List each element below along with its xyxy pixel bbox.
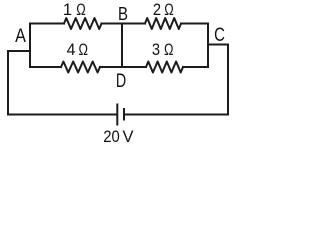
svg-text:D: D	[116, 70, 126, 92]
wire left outer vertical	[7, 51, 9, 115]
label 2 ohm	[153, 1, 174, 19]
battery value label 20 V	[103, 128, 133, 146]
svg-text:Ω: Ω	[164, 1, 174, 19]
label 1 ohm	[63, 1, 86, 19]
svg-text:20: 20	[103, 128, 120, 146]
battery 20V short plate	[123, 109, 125, 120]
svg-text:C: C	[214, 24, 225, 46]
wire node D to R3	[122, 66, 146, 68]
battery 20V long plate	[116, 105, 118, 125]
svg-text:A: A	[15, 25, 26, 47]
wire node B to node D	[121, 24, 123, 68]
wire right bridge bar	[207, 24, 209, 68]
wire R3 to right bar	[183, 66, 208, 68]
svg-text:B: B	[118, 3, 128, 24]
resistor R4 4ohm	[61, 62, 100, 73]
svg-text:3: 3	[152, 41, 160, 59]
resistor R2 2ohm	[145, 18, 181, 29]
svg-text:V: V	[122, 128, 133, 146]
label 3 ohm	[152, 41, 174, 59]
wire top-left (A bar to R1)	[30, 23, 64, 25]
svg-text:Ω: Ω	[76, 1, 86, 19]
svg-text:4: 4	[67, 41, 76, 59]
resistor R3 3ohm	[146, 62, 183, 73]
wire node A stub	[8, 50, 30, 52]
label 4 ohm	[67, 41, 88, 59]
wire bottom left to battery	[8, 114, 116, 116]
svg-text:2: 2	[153, 1, 161, 19]
wire battery to bottom right	[125, 114, 229, 116]
wire lower-left (bar to R4)	[30, 66, 61, 68]
svg-text:Ω: Ω	[164, 41, 174, 59]
wire R4 to node D	[100, 66, 122, 68]
svg-text:1: 1	[63, 1, 72, 19]
wire right outer vertical	[227, 45, 229, 115]
wire R2 to right bar	[181, 23, 208, 25]
svg-text:Ω: Ω	[78, 41, 88, 59]
wire R1 to node B	[102, 23, 146, 25]
wire left bridge bar	[29, 24, 31, 68]
wire node C stub	[208, 44, 228, 46]
resistor R1 1ohm	[64, 18, 102, 29]
